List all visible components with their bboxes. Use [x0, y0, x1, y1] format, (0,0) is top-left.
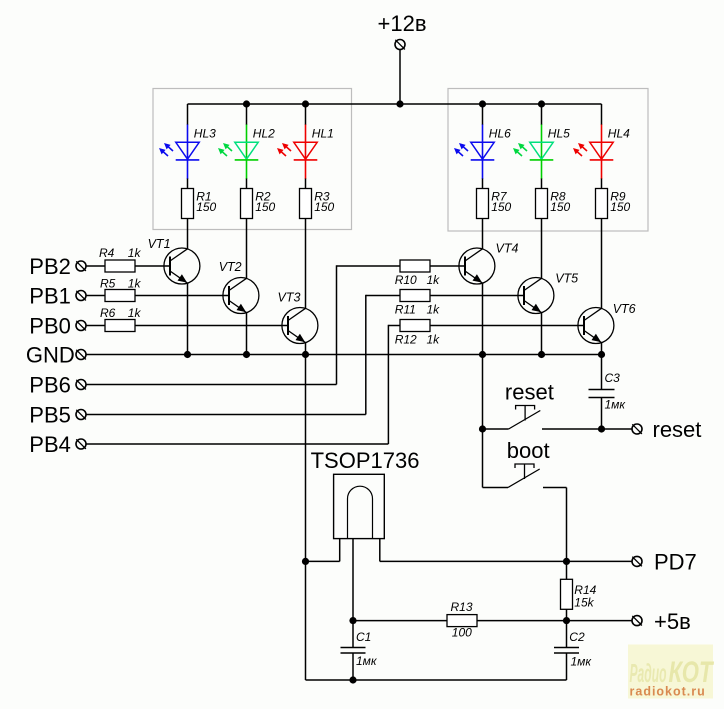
wire PB4 riser [387, 325, 389, 444]
wire R14 to +5V [566, 609, 568, 620]
transistor VT1 [164, 248, 200, 284]
wire PB4 horizontal [86, 443, 388, 445]
wire PD7 to R14 [566, 561, 568, 579]
wire +5V left segment [353, 620, 447, 622]
LED group box left [153, 89, 352, 230]
wire R10 to VT4 base [430, 265, 465, 267]
resistor R13 100 [447, 615, 477, 627]
wire PB5 horizontal [86, 414, 366, 416]
resistor R9 150 [596, 189, 608, 219]
svg-text:150: 150 [196, 200, 216, 214]
svg-text:HL1: HL1 [312, 126, 334, 140]
wire +5V to C1 [352, 621, 354, 647]
node bus/LED [302, 100, 309, 107]
svg-text:1k: 1k [128, 306, 142, 320]
resistor R11 1k [400, 290, 430, 302]
svg-text:VT5: VT5 [555, 271, 578, 285]
svg-text:R10: R10 [395, 273, 417, 287]
node GND junction [302, 351, 309, 358]
wire +12V to bus [399, 50, 401, 105]
wire reset left contact [483, 428, 509, 430]
node reset/buttons [479, 425, 486, 432]
svg-text:PB1: PB1 [29, 283, 71, 308]
svg-text:HL3: HL3 [194, 126, 216, 140]
wire C1 to bottom [352, 653, 354, 680]
wire bottom ground [306, 679, 567, 681]
terminal PB1 [76, 291, 86, 301]
svg-text:1k: 1k [128, 246, 142, 260]
terminal reset [632, 424, 642, 434]
IR receiver TSOP1736 body [334, 474, 385, 538]
svg-text:TSOP1736: TSOP1736 [311, 448, 420, 473]
wire PB5 to R11 [366, 295, 400, 297]
svg-text:HL4: HL4 [608, 126, 630, 140]
+12V terminal [395, 40, 405, 50]
svg-text:C1: C1 [356, 630, 371, 644]
node GND junction [184, 351, 191, 358]
resistor R3 150 [300, 189, 312, 219]
wire PB2 to R4 [86, 265, 106, 267]
wire top bus [188, 103, 602, 105]
wire C3 to reset [601, 398, 603, 429]
wire VT5 emitter down [541, 312, 543, 354]
svg-text:Радио: Радио [630, 658, 667, 688]
transistor VT4 [459, 248, 495, 284]
wire reset right [542, 428, 632, 430]
svg-text:R13: R13 [451, 600, 473, 614]
svg-text:PB5: PB5 [29, 402, 71, 427]
wire VT3 emitter down [305, 342, 307, 354]
wire boot left contact [483, 487, 509, 489]
terminal PB5 [76, 410, 86, 420]
wire C2 to bottom [566, 653, 568, 680]
svg-text:R11: R11 [395, 302, 416, 316]
capacitor C1 [341, 648, 366, 654]
wire VT2 emitter down [246, 312, 248, 354]
svg-text:R12: R12 [395, 332, 417, 346]
node GND junction [479, 351, 486, 358]
terminal PB0 [76, 321, 86, 331]
wire PB4 to R12 [388, 325, 400, 327]
svg-text:radiokot.ru: radiokot.ru [630, 685, 706, 699]
wire C2 top [566, 621, 568, 647]
svg-text:150: 150 [610, 200, 630, 214]
svg-text:100: 100 [452, 626, 472, 640]
wire PB1 to R5 [86, 295, 106, 297]
svg-text:+5в: +5в [654, 609, 691, 634]
node bus/+12V [396, 100, 403, 107]
wire bus to HL1 [305, 104, 307, 125]
resistor R7 150 [477, 189, 489, 219]
terminal GND [76, 350, 86, 360]
LED HL2 [218, 125, 258, 180]
wire VT6 emitter down [601, 342, 603, 354]
svg-text:1k: 1k [427, 302, 441, 316]
node bus/LED [479, 100, 486, 107]
wire R9 to VT6 collector [601, 219, 603, 309]
LED HL1 [277, 125, 317, 180]
svg-text:GND: GND [26, 342, 75, 367]
resistor R6 1k [105, 320, 135, 332]
svg-text:reset: reset [505, 380, 554, 405]
wire R6 to VT3 base [135, 325, 289, 327]
wire PB6 riser [336, 265, 338, 384]
pushbutton boot [508, 464, 540, 488]
svg-text:VT3: VT3 [278, 291, 301, 305]
svg-text:R4: R4 [99, 246, 115, 260]
wire bus to HL4 [601, 104, 603, 125]
node GND junction [243, 351, 250, 358]
wire bus to HL2 [246, 104, 248, 125]
node PD7/R14/boot [563, 558, 570, 565]
wire TSOP leg GND [339, 539, 341, 562]
wire bus to HL5 [541, 104, 543, 125]
wire GND to C3 [601, 355, 603, 390]
svg-text:HL5: HL5 [548, 126, 570, 140]
svg-text:PB2: PB2 [29, 254, 71, 279]
LED HL4 [573, 125, 613, 180]
wire HL3 to R1 [187, 179, 189, 189]
node GND junction [538, 351, 545, 358]
svg-text:HL6: HL6 [489, 126, 511, 140]
IR receiver dome [348, 486, 373, 538]
svg-text:PB6: PB6 [29, 372, 71, 397]
resistor R12 1k [400, 320, 430, 332]
wire PB6 horizontal [86, 384, 337, 386]
wire GND bus [86, 354, 602, 356]
wire R4 to VT1 base [135, 265, 171, 267]
wire bus to HL3 [187, 104, 189, 125]
svg-text:1мк: 1мк [605, 398, 627, 412]
resistor R10 1k [400, 260, 430, 272]
svg-text:VT1: VT1 [148, 237, 171, 251]
svg-text:VT4: VT4 [496, 242, 519, 256]
svg-text:+12в: +12в [378, 11, 427, 36]
node +5V/C1 [349, 617, 356, 624]
svg-text:C2: C2 [569, 630, 585, 644]
svg-text:15k: 15k [574, 595, 594, 609]
node bottom/C1 [349, 676, 356, 683]
resistor R5 1k [105, 290, 135, 302]
wire TSOP leg Vs [352, 539, 354, 621]
wire +5V right segment [477, 620, 632, 622]
wire TSOP leg OUT [379, 539, 381, 562]
terminal PB6 [76, 380, 86, 390]
wire HL2 to R2 [246, 179, 248, 189]
node PD7/ground net [302, 558, 309, 565]
wire R11 to VT5 base [430, 295, 524, 297]
svg-text:VT2: VT2 [219, 260, 242, 274]
capacitor C2 [554, 648, 579, 654]
transistor VT2 [223, 278, 259, 314]
node +5V/R14/C2 [563, 617, 570, 624]
svg-text:C3: C3 [605, 371, 621, 385]
wire PD7 right segment [380, 560, 632, 562]
wire HL1 to R3 [305, 179, 307, 189]
svg-text:PD7: PD7 [654, 549, 697, 574]
svg-text:VT6: VT6 [613, 302, 636, 316]
wire R3 to VT3 collector [305, 219, 307, 309]
wire R7 to VT4 collector [482, 219, 484, 250]
svg-text:1мк: 1мк [571, 654, 593, 668]
svg-text:1k: 1k [427, 332, 441, 346]
wire TSOP ground net vertical [305, 355, 307, 681]
wire boot to PD7 [566, 488, 568, 562]
svg-text:reset: reset [653, 417, 702, 442]
svg-text:1k: 1k [427, 273, 441, 287]
wire VT1 emitter down [187, 283, 189, 355]
terminal PD7 [632, 556, 642, 566]
terminal +5V [632, 616, 642, 626]
node bus/LED [243, 100, 250, 107]
wire bus to HL6 [482, 104, 484, 125]
svg-text:150: 150 [491, 200, 511, 214]
svg-text:150: 150 [550, 200, 570, 214]
wire PD7 left segment [306, 560, 340, 562]
resistor R2 150 [241, 189, 253, 219]
svg-text:boot: boot [507, 438, 550, 463]
wire VT4 emitter down [482, 283, 484, 355]
svg-text:150: 150 [314, 200, 334, 214]
LED group box right [448, 89, 648, 232]
svg-text:PB0: PB0 [29, 313, 71, 338]
node reset/C3 [598, 425, 605, 432]
resistor R4 1k [105, 260, 135, 272]
resistor R8 150 [536, 189, 548, 219]
wire HL6 to R7 [482, 179, 484, 189]
svg-text:1мк: 1мк [356, 654, 378, 668]
resistor R14 15k [561, 579, 573, 609]
LED HL3 [159, 125, 199, 180]
capacitor C3 [589, 390, 615, 398]
transistor VT5 [518, 278, 554, 314]
wire R1 to VT1 collector [187, 219, 189, 250]
transistor VT6 [578, 308, 614, 344]
wire R2 to VT2 collector [246, 219, 248, 279]
wire HL4 to R9 [601, 179, 603, 189]
wire R12 to VT6 base [430, 325, 584, 327]
node bus/LED [538, 100, 545, 107]
wire PB6 to R10 [337, 265, 401, 267]
wire boot right [543, 487, 567, 489]
wire PB5 riser [365, 295, 367, 415]
wire buttons common vertical [482, 355, 484, 488]
wire R8 to VT5 collector [541, 219, 543, 279]
watermark radiokot [628, 645, 714, 699]
wire PB0 to R6 [86, 325, 106, 327]
svg-text:1k: 1k [128, 276, 142, 290]
svg-text:PB4: PB4 [29, 432, 71, 457]
svg-text:150: 150 [255, 200, 275, 214]
svg-text:R5: R5 [100, 276, 116, 290]
wire HL5 to R8 [541, 179, 543, 189]
LED HL5 [513, 125, 553, 180]
svg-text:R6: R6 [100, 306, 116, 320]
node GND junction [598, 351, 605, 358]
wire R5 to VT2 base [135, 295, 230, 297]
pushbutton reset [509, 406, 541, 430]
svg-text:HL2: HL2 [253, 126, 275, 140]
terminal PB2 [76, 261, 86, 271]
resistor R1 150 [182, 189, 194, 219]
terminal PB4 [76, 439, 86, 449]
LED HL6 [454, 125, 494, 180]
transistor VT3 [282, 308, 318, 344]
